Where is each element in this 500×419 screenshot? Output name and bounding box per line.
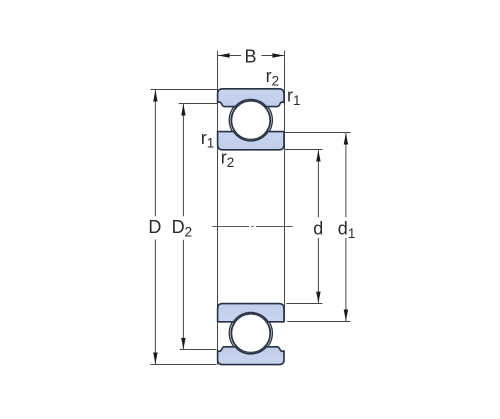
ball lower [232, 314, 270, 352]
raceway shoulder crescent right lower [265, 322, 272, 347]
arrow: D bottom arrowhead [153, 353, 157, 365]
wire: d dimension vertical line [317, 150, 319, 304]
wire: B dimension line right segment [262, 55, 285, 57]
wire: d1 top extension line [284, 132, 350, 134]
arrow: d1 bottom arrowhead [344, 310, 348, 322]
inner ring upper cross-section [218, 132, 284, 150]
arrow: D2 bottom arrowhead [181, 338, 185, 350]
svg-text:D2: D2 [172, 217, 193, 239]
wire: D2 dimension vertical line [182, 104, 184, 350]
wire: d1 bottom extension line [287, 321, 350, 323]
wire: D2 top extension line [179, 103, 218, 105]
arrow: B right arrowhead [272, 53, 284, 57]
svg-text:r1: r1 [201, 128, 215, 150]
svg-text:r1: r1 [287, 86, 301, 108]
ball upper [232, 101, 270, 139]
arrow: d bottom arrowhead [316, 292, 320, 304]
wire: D top extension line [150, 89, 217, 91]
inner ring lower cross-section [218, 304, 284, 322]
arrow: d1 top arrowhead [344, 133, 348, 145]
arrow: d top arrowhead [316, 150, 320, 162]
svg-text:D: D [148, 217, 161, 237]
raceway shoulder crescent left upper [229, 107, 236, 132]
arrow: D2 top arrowhead [181, 104, 185, 116]
svg-text:B: B [245, 47, 257, 67]
arrow: B left arrowhead [218, 53, 230, 57]
svg-text:d: d [313, 219, 323, 239]
raceway shoulder crescent right upper [265, 107, 272, 132]
svg-text:d1: d1 [338, 219, 356, 241]
node: centerline (axis, dash-dot) [212, 226, 293, 228]
raceway shoulder crescent left lower [229, 322, 236, 347]
outer ring lower cross-section [218, 347, 284, 365]
wire: D2 bottom extension line [180, 349, 217, 351]
wire: D bottom extension line [150, 364, 216, 366]
outer ring upper cross-section [218, 89, 284, 107]
svg-text:r2: r2 [221, 147, 235, 169]
wire: d1 dimension vertical line [345, 133, 347, 322]
wire: D dimension vertical line [154, 90, 156, 365]
wire: d bottom extension line [286, 303, 322, 305]
arrow: D top arrowhead [153, 90, 157, 102]
wire: right silhouette/extension vertical line [284, 51, 286, 321]
wire: B dimension line left segment [218, 55, 241, 57]
svg-text:r2: r2 [266, 66, 280, 88]
wire: d top extension line [284, 149, 322, 151]
wire: left silhouette/extension vertical line [217, 51, 219, 365]
